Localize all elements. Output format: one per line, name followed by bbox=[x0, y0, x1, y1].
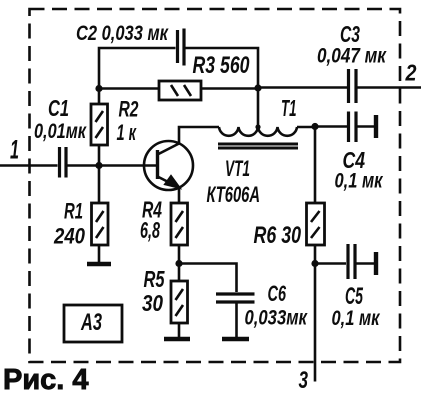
node D junction bbox=[175, 260, 182, 267]
node A junction bbox=[95, 162, 102, 169]
chassis terminator of C5 bbox=[374, 252, 378, 275]
svg-text:3: 3 bbox=[299, 367, 309, 394]
wire C4 to chassis stub bbox=[357, 125, 374, 128]
svg-text:R3 560: R3 560 bbox=[193, 52, 250, 79]
svg-text:1 к: 1 к bbox=[117, 120, 138, 145]
wire R5 to ground bbox=[178, 323, 181, 337]
svg-text:КТ606А: КТ606А bbox=[207, 182, 261, 207]
wire node to R3 bbox=[99, 87, 159, 90]
resistor R4 bbox=[171, 203, 188, 245]
ground of R5 bbox=[164, 337, 190, 342]
wire node C to C4 bbox=[315, 125, 347, 128]
resistor R6 bbox=[307, 203, 325, 245]
R4 value label bbox=[140, 197, 162, 244]
svg-text:0,047 мк: 0,047 мк bbox=[317, 45, 387, 68]
R1 value label bbox=[53, 199, 85, 249]
svg-text:2: 2 bbox=[405, 60, 417, 86]
C1 value label bbox=[34, 95, 87, 143]
inductor T1 winding bbox=[219, 127, 297, 136]
wire R2 bottom to node A bbox=[98, 145, 101, 166]
wire node E to C5 bbox=[315, 262, 346, 265]
svg-text:0,1 мк: 0,1 мк bbox=[332, 307, 381, 330]
C3 value label bbox=[317, 21, 387, 68]
C6 value label bbox=[245, 281, 309, 330]
svg-text:R6 30: R6 30 bbox=[254, 222, 302, 249]
wire node B to C3 bbox=[258, 86, 347, 89]
wire R1 to ground bbox=[98, 245, 101, 262]
wire R4 to node D bbox=[178, 245, 181, 281]
capacitor C5 bbox=[348, 244, 355, 279]
wire C2 branch left riser bbox=[99, 48, 176, 88]
svg-text:0,1 мк: 0,1 мк bbox=[335, 170, 384, 193]
wire collector up and to T1 bbox=[179, 127, 219, 144]
svg-text:30: 30 bbox=[142, 290, 163, 316]
capacitor C6 bbox=[216, 294, 255, 302]
wire node E to terminal 3 bbox=[314, 264, 317, 382]
svg-text:0,033мк: 0,033мк bbox=[245, 307, 309, 330]
svg-text:1: 1 bbox=[10, 135, 19, 165]
R5 value label bbox=[142, 266, 165, 316]
transistor VT1 bbox=[144, 141, 193, 190]
capacitor C3 bbox=[349, 69, 357, 103]
chassis terminator of C4 bbox=[374, 115, 378, 138]
ground of C6 bbox=[222, 337, 249, 342]
node T1 center tap junction bbox=[255, 124, 260, 129]
resistor R1 bbox=[92, 203, 109, 245]
svg-text:C6: C6 bbox=[268, 281, 287, 306]
capacitor C1 bbox=[60, 147, 67, 178]
node R3-left junction bbox=[95, 85, 102, 92]
node B junction bbox=[254, 84, 261, 91]
node E junction bbox=[311, 260, 318, 267]
capacitor C4 bbox=[349, 112, 357, 143]
svg-text:А3: А3 bbox=[80, 309, 102, 336]
resistor R2 bbox=[91, 104, 108, 145]
node C junction bbox=[311, 123, 318, 130]
resistor R5 bbox=[171, 281, 188, 323]
ground of R1 bbox=[87, 262, 111, 267]
dashed enclosure border bbox=[30, 9, 401, 362]
C4 value label bbox=[335, 147, 384, 193]
wire node to R2 top bbox=[98, 89, 101, 105]
svg-text:T1: T1 bbox=[281, 95, 297, 121]
svg-text:VT1: VT1 bbox=[225, 156, 250, 181]
svg-text:C5: C5 bbox=[345, 283, 363, 310]
wire node C to R6 bbox=[314, 127, 317, 204]
VT1 type label bbox=[207, 156, 261, 207]
svg-text:R5: R5 bbox=[144, 266, 166, 292]
svg-text:Рис. 4: Рис. 4 bbox=[3, 364, 89, 394]
wire C2 to node B bbox=[186, 48, 259, 88]
wire node D to C6 bbox=[179, 264, 237, 293]
wire R3 to node B bbox=[201, 87, 258, 90]
svg-text:R1: R1 bbox=[64, 199, 83, 224]
svg-text:6,8: 6,8 bbox=[140, 217, 160, 243]
wire C5 to chassis stub bbox=[356, 262, 374, 265]
R2 value label bbox=[117, 97, 140, 146]
capacitor C2 bbox=[178, 29, 185, 66]
svg-text:C1: C1 bbox=[48, 95, 69, 121]
wire C1 to node A bbox=[67, 164, 99, 167]
svg-text:R2: R2 bbox=[119, 97, 140, 122]
wire node A to R1 bbox=[98, 166, 101, 204]
svg-text:240: 240 bbox=[53, 224, 85, 249]
wire C6 to ground bbox=[235, 303, 238, 337]
T1 core bars bbox=[218, 144, 298, 148]
svg-text:C3: C3 bbox=[340, 21, 360, 47]
wire input to C1 bbox=[0, 164, 58, 167]
wire node B to T1 center tap bbox=[257, 88, 260, 128]
resistor R3 bbox=[159, 81, 201, 100]
svg-text:C2 0,033 мк: C2 0,033 мк bbox=[76, 22, 169, 45]
wire C3 to terminal 2 bbox=[357, 86, 421, 89]
svg-text:0,01мк: 0,01мк bbox=[34, 120, 87, 143]
block A3 bbox=[64, 305, 122, 342]
wire node A to transistor base bbox=[99, 164, 156, 167]
wire emitter to R4 bbox=[178, 188, 181, 203]
wire R6 to node E bbox=[314, 245, 317, 264]
wire T1 to node C bbox=[297, 126, 315, 129]
C5 value label bbox=[332, 283, 381, 330]
